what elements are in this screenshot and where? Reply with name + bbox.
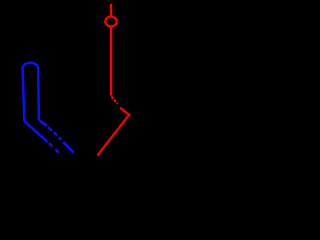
wire blue left vertical: [23, 68, 25, 121]
wire blue right diagonal dash 1: [48, 127, 52, 131]
wire blue right diagonal dash 3: [59, 137, 62, 140]
wire blue arc (hairpin top): [23, 63, 39, 69]
wire red dashed diagonal: [111, 97, 117, 104]
wire blue left diagonal dash 1: [49, 143, 53, 146]
wire red vertical top segment: [110, 4, 112, 16]
node O atom ring: [105, 17, 116, 27]
wire red chevron (solid diagonal to apex and down-left to bottom): [97, 108, 129, 156]
wire blue right diagonal solid upper: [39, 120, 47, 126]
wire blue left diagonal dash 2: [55, 149, 58, 152]
wire blue right diagonal dash 2: [54, 132, 57, 135]
wire red vertical main segment: [110, 27, 112, 96]
wire blue right vertical: [37, 68, 40, 120]
wire blue left diagonal solid: [24, 121, 47, 142]
wire blue right diagonal solid lower: [63, 142, 73, 153]
